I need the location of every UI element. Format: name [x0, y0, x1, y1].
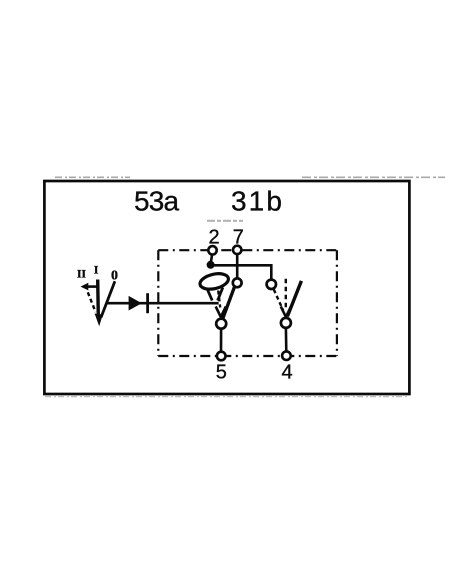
right dashed mid position: [285, 279, 287, 308]
right dashed closed position: [274, 290, 283, 311]
terminal 2 circle: [208, 246, 216, 254]
cam: [198, 271, 229, 300]
dash-dot enclosure right: [336, 250, 338, 356]
svg-text:4: 4: [282, 362, 293, 384]
svg-text:53a: 53a: [134, 186, 180, 217]
wire 7 down: [236, 253, 239, 279]
lever position II dashed line: [88, 292, 96, 312]
lever tip arrowhead: [95, 314, 103, 327]
svg-text:31b: 31b: [231, 186, 284, 217]
svg-text:5: 5: [216, 362, 227, 384]
dash-dot enclosure top: [158, 249, 337, 251]
right pivot circle: [281, 318, 291, 328]
terminal 7 circle: [233, 246, 241, 254]
svg-text:I: I: [94, 263, 99, 277]
link arrowhead: [129, 296, 142, 311]
lever position I line: [96, 280, 100, 317]
dash-dot enclosure left: [157, 250, 159, 356]
lever motion arrow to II: [81, 283, 97, 291]
dash-dot enclosure bottom: [158, 355, 337, 357]
right arrowhead: [281, 307, 291, 317]
right pole arm: [287, 281, 301, 317]
contact B circle (right): [267, 280, 276, 289]
contact A circle (under 7): [233, 278, 242, 287]
left arrowhead: [216, 307, 226, 317]
lever position 0 line: [101, 281, 115, 317]
outer frame: [44, 181, 409, 394]
svg-text:II: II: [77, 269, 86, 281]
link end bar: [146, 293, 149, 313]
wire node to right: [211, 265, 271, 280]
wire 2 to node: [211, 253, 213, 263]
wire right pivot to 4: [285, 328, 288, 352]
left pole arm: [223, 287, 235, 319]
node junction dot: [207, 261, 215, 269]
terminal 5 circle: [217, 352, 226, 361]
mechanical link line: [106, 302, 219, 305]
terminal 4 circle: [282, 351, 291, 360]
left actuation dashed: [218, 291, 220, 308]
wire left pivot to 5: [220, 329, 223, 352]
left pivot circle: [216, 319, 226, 329]
